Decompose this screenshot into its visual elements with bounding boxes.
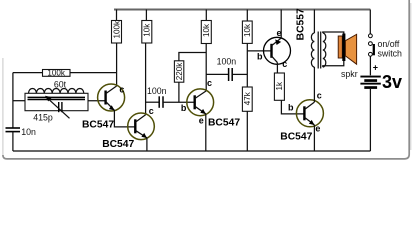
capacitor 100n (Q3 to BC557 coupling) xyxy=(206,56,247,81)
wire: BC557 collector to 1k xyxy=(276,63,278,73)
svg-text:3v: 3v xyxy=(382,72,402,92)
transistor Q5 BC547 (output) xyxy=(296,100,323,127)
transistor Q2 BC547 xyxy=(128,113,155,140)
variable capacitor 415p xyxy=(33,96,69,123)
svg-text:100n: 100n xyxy=(217,56,237,66)
svg-text:on/off: on/off xyxy=(378,39,400,49)
svg-text:10k: 10k xyxy=(202,23,211,37)
svg-text:BC547: BC547 xyxy=(82,119,114,130)
svg-text:b: b xyxy=(181,103,187,113)
wire: V+ top rail xyxy=(114,9,370,11)
svg-text:10k: 10k xyxy=(243,23,252,37)
svg-text:e: e xyxy=(199,116,204,126)
transformer core xyxy=(318,32,321,69)
svg-text:60t: 60t xyxy=(54,79,67,89)
svg-text:e: e xyxy=(277,28,282,38)
capacitor 100n (Q2 to Q3 coupling) xyxy=(146,86,195,108)
on/off switch xyxy=(369,10,403,76)
transistor BC557 (PNP) xyxy=(264,37,291,64)
coil 60t (aerial coil on ferrite rod) xyxy=(28,79,86,99)
wire: R2 bottom to Q2 collector xyxy=(145,43,147,115)
wire: 10n to ground rail xyxy=(12,132,14,151)
svg-text:b: b xyxy=(288,103,294,113)
resistor 10k (R4, BC557 base bias) xyxy=(242,10,252,44)
transformer: primary winding xyxy=(311,10,314,68)
resistor 100k (R1 top, Q1 collector load) xyxy=(112,10,122,44)
resistor 10k (R3, Q3 collector load) xyxy=(201,10,211,44)
resistor 1k (BC557 collector load) xyxy=(274,73,284,100)
wire: R1 bottom to Q1 collector xyxy=(116,43,118,86)
capacitor 10n xyxy=(6,127,36,137)
svg-text:+: + xyxy=(373,63,378,73)
svg-text:BC547: BC547 xyxy=(102,139,134,150)
svg-text:c: c xyxy=(149,106,154,116)
svg-text:47k: 47k xyxy=(243,91,252,105)
wire: tank right to Q1 base xyxy=(88,100,106,102)
svg-text:c: c xyxy=(282,59,287,69)
transformer: secondary winding xyxy=(323,32,344,67)
wire: Q5 collector to transformer primary xyxy=(313,67,315,102)
resistor 220k (Q3 base bias) xyxy=(174,53,206,103)
wire: bottom ground rail xyxy=(13,150,371,152)
svg-text:b: b xyxy=(257,52,263,62)
svg-text:10k: 10k xyxy=(143,23,152,37)
wire: Q2 emitter to ground xyxy=(146,138,148,151)
svg-text:e: e xyxy=(315,124,320,134)
wire: Q1 emitter to Q2 base xyxy=(114,110,135,127)
wire: R4/47k node to BC557 base xyxy=(247,50,271,52)
svg-text:BC557: BC557 xyxy=(295,8,306,40)
tuned circuit box (coil + variable cap) xyxy=(25,93,88,110)
resistor 47k (BC557 base to ground) xyxy=(242,87,252,151)
svg-text:220k: 220k xyxy=(175,62,184,81)
resistor 100k (horizontal feedback) xyxy=(13,69,117,78)
svg-text:415p: 415p xyxy=(33,113,53,123)
svg-text:100n: 100n xyxy=(147,86,167,96)
svg-text:BC547: BC547 xyxy=(280,131,312,142)
wire: BC557 emitter to V+ rail xyxy=(280,10,282,39)
wire: left rail down from 100k to tank and 10n xyxy=(12,73,14,128)
svg-text:c: c xyxy=(317,91,322,101)
resistor 10k (R2, Q2 collector load) xyxy=(142,10,152,44)
battery 3v xyxy=(360,63,402,152)
svg-text:BC547: BC547 xyxy=(208,118,240,129)
wire: 1k bottom to Q5 base xyxy=(281,100,304,114)
svg-text:c: c xyxy=(119,85,124,95)
svg-text:switch: switch xyxy=(378,49,403,59)
wire: R3 bottom to Q3 collector with junctions xyxy=(205,44,207,91)
svg-text:c: c xyxy=(207,78,212,88)
svg-text:spkr: spkr xyxy=(341,69,358,79)
transistor Q1 BC547 xyxy=(98,84,125,111)
svg-text:100k: 100k xyxy=(47,69,66,78)
wire: Q5 emitter to ground xyxy=(313,125,315,151)
wire: R4 bottom down to 47k top, junctions at base wire and 100n xyxy=(246,43,248,87)
speaker spkr xyxy=(338,34,357,80)
wire: Q3 emitter to ground xyxy=(205,114,207,151)
svg-text:10n: 10n xyxy=(21,127,36,137)
svg-text:100k: 100k xyxy=(112,20,121,39)
transistor Q3 BC547 xyxy=(187,89,214,116)
svg-text:1k: 1k xyxy=(275,81,284,91)
wire: tank left to left rail xyxy=(13,100,25,102)
